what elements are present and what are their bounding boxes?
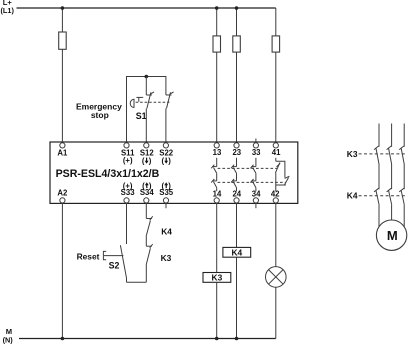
relay box PSR-ESL4 bbox=[50, 142, 298, 203]
svg-text:A1: A1 bbox=[57, 148, 68, 157]
svg-text:S34: S34 bbox=[140, 188, 155, 197]
svg-text:M: M bbox=[387, 228, 398, 243]
wire reset loop bottom bbox=[127, 281, 147, 283]
wire lamp to M rail bbox=[275, 287, 277, 338]
terminal S34 bbox=[144, 198, 149, 203]
motor branch line 1 bbox=[378, 124, 380, 147]
wire K3 coil to M rail bbox=[216, 282, 218, 338]
contactor coil K4 bbox=[223, 247, 251, 257]
svg-text:S1: S1 bbox=[136, 111, 147, 121]
svg-text:14: 14 bbox=[213, 189, 222, 198]
svg-text:(: ( bbox=[142, 156, 145, 165]
svg-text:42: 42 bbox=[271, 189, 280, 198]
contactor K3 main contacts bbox=[374, 146, 404, 189]
wire 41 branch from L+ bbox=[275, 8, 277, 143]
motor branch line 3 bbox=[403, 124, 405, 147]
terminal 33 bbox=[253, 143, 258, 148]
terminal S22 bbox=[163, 143, 168, 148]
junction dot 23 branch bbox=[235, 6, 239, 10]
svg-text:33: 33 bbox=[252, 148, 261, 157]
contactor coil K3 bbox=[203, 273, 231, 283]
wire emergency-stop top bar bbox=[127, 77, 166, 143]
terminal A1 bbox=[60, 143, 65, 148]
wire 23 branch from L+ bbox=[236, 8, 238, 143]
relay linkage dashed row 1 bbox=[218, 167, 277, 169]
svg-text:A2: A2 bbox=[57, 188, 68, 197]
svg-text:K4: K4 bbox=[231, 247, 242, 257]
relay internal contact column 13-14 bbox=[211, 158, 217, 191]
fuse F2 bbox=[213, 36, 221, 52]
svg-text:): ) bbox=[149, 156, 152, 165]
contact K3 feedback bbox=[146, 244, 152, 282]
S1 linkage dashed bbox=[136, 101, 170, 103]
K3 linkage dashed bbox=[359, 153, 406, 155]
svg-text:(L1): (L1) bbox=[1, 6, 15, 15]
S34 polarity up-arrow bbox=[145, 182, 149, 188]
wire 13 branch from L+ bbox=[216, 8, 218, 143]
S1 e-stop actuator bbox=[130, 97, 143, 107]
svg-text:(: ( bbox=[161, 156, 164, 165]
terminal 41 bbox=[273, 143, 278, 148]
reset button S2 blade bbox=[120, 245, 126, 277]
terminal S35 bbox=[163, 198, 168, 203]
terminal S11 bbox=[124, 143, 129, 148]
svg-text:24: 24 bbox=[232, 189, 241, 198]
wire 34 stub bbox=[255, 203, 257, 208]
terminal 34 bbox=[253, 198, 258, 203]
wire S33 down bbox=[126, 203, 128, 244]
terminal S12 bbox=[144, 143, 149, 148]
contact K4 feedback bbox=[146, 216, 152, 246]
relay internal contact column 33-34 bbox=[250, 158, 256, 191]
terminal 13 bbox=[214, 143, 219, 148]
svg-text:PSR-ESL4/3x1/1x2/B: PSR-ESL4/3x1/1x2/B bbox=[56, 168, 160, 180]
junction dot S12 column on bar bbox=[145, 75, 149, 79]
svg-text:S33: S33 bbox=[121, 188, 136, 197]
node L+ (L1) label bbox=[1, 0, 15, 15]
svg-text:34: 34 bbox=[252, 189, 261, 198]
terminal 42 bbox=[273, 198, 278, 203]
svg-text:K3: K3 bbox=[212, 273, 223, 283]
S2 actuator stem bbox=[104, 255, 124, 257]
S2 actuator bracket bbox=[103, 251, 106, 259]
wire bottom supply rail M bbox=[19, 338, 276, 340]
motor M bbox=[376, 220, 406, 250]
relay linkage dashed row 2 bbox=[218, 181, 286, 183]
terminal labels S11 S12 S22 bbox=[121, 148, 174, 165]
wire S34 down bbox=[145, 203, 147, 218]
S35 polarity up-arrow bbox=[164, 182, 168, 188]
svg-text:stop: stop bbox=[91, 110, 109, 120]
junction dot 13 branch bbox=[215, 6, 219, 10]
svg-text:13: 13 bbox=[213, 148, 222, 157]
relay internal NC contact column 41-42 bbox=[275, 158, 289, 191]
wire 24 to K4 coil bbox=[236, 203, 238, 247]
terminal 14 bbox=[214, 198, 219, 203]
switch S1 NC contact 1 bbox=[146, 92, 154, 143]
svg-text:K4: K4 bbox=[161, 226, 172, 236]
fuse F1 bbox=[59, 32, 66, 49]
svg-text:): ) bbox=[168, 156, 171, 165]
terminal 23 bbox=[234, 143, 239, 148]
wire A1 branch from L+ bbox=[61, 8, 63, 143]
wire K4 coil to M rail bbox=[236, 257, 238, 338]
svg-text:(+): (+) bbox=[123, 156, 133, 165]
motor branch line 2 bbox=[391, 124, 393, 147]
junction dot K4 at M rail bbox=[235, 337, 239, 341]
terminal S33 bbox=[124, 198, 129, 203]
S2 lower stub bbox=[126, 278, 128, 283]
relay internal contact column 23-24 bbox=[231, 158, 237, 191]
wire S12 column upper bbox=[145, 77, 147, 96]
svg-text:S35: S35 bbox=[159, 188, 174, 197]
terminal A2 bbox=[60, 198, 65, 203]
wire 14 to K3 coil bbox=[216, 203, 218, 272]
fuse F3 bbox=[233, 36, 241, 52]
terminal labels 14 24 34 42 bbox=[213, 189, 281, 198]
wire S35 stub bbox=[165, 203, 167, 208]
switch S1 NC contact 2 bbox=[166, 92, 174, 143]
svg-text:(N): (N) bbox=[3, 335, 14, 344]
wire 33 stub bbox=[255, 139, 257, 143]
S22 polarity down-arrow bbox=[164, 158, 168, 164]
indicator lamp bbox=[266, 267, 287, 288]
wire 42 to lamp bbox=[275, 203, 277, 267]
emergency stop text bbox=[76, 102, 122, 120]
fuse F4 bbox=[272, 36, 280, 52]
svg-text:S2: S2 bbox=[109, 260, 120, 270]
contactor K4 main contacts bbox=[374, 188, 404, 227]
node M (N) label bbox=[3, 327, 14, 344]
wire top supply rail L+ bbox=[17, 7, 276, 9]
S12 polarity down-arrow bbox=[145, 158, 149, 164]
svg-text:K3: K3 bbox=[161, 253, 172, 263]
junction dot A1 branch bbox=[61, 6, 65, 10]
terminal labels 13 23 33 41 bbox=[213, 148, 281, 157]
terminal 24 bbox=[234, 198, 239, 203]
terminal labels S33 S34 S35 bbox=[121, 181, 174, 197]
wire A2 to M rail bbox=[61, 203, 63, 338]
junction dot A2 at M rail bbox=[61, 337, 65, 341]
K4 linkage dashed bbox=[359, 195, 406, 197]
svg-text:K4: K4 bbox=[347, 190, 358, 200]
svg-text:K3: K3 bbox=[347, 149, 358, 159]
svg-text:Reset: Reset bbox=[77, 251, 100, 261]
svg-text:41: 41 bbox=[272, 148, 281, 157]
junction dot K3 at M rail bbox=[215, 337, 219, 341]
svg-text:23: 23 bbox=[232, 148, 241, 157]
